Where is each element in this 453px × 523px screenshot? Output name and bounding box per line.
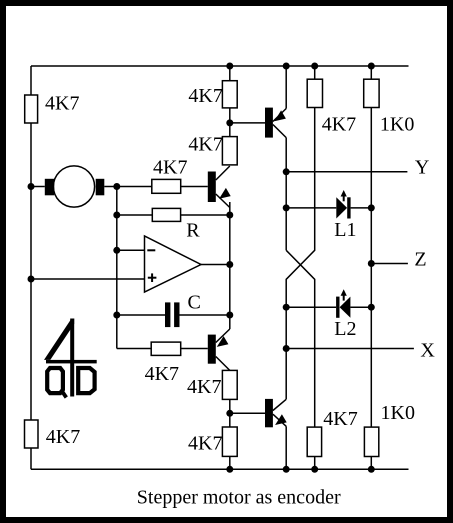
- junction dots centre bus: [226, 119, 233, 126]
- wire centre bus bottom segment: [229, 456, 231, 469]
- junction dots left rail: [28, 183, 35, 190]
- wire middle-left bus (x=117): [116, 187, 118, 349]
- wire Q4 base: [230, 412, 265, 414]
- logo 4QD: [44, 319, 97, 398]
- transistor Q4 (bottom): [265, 399, 287, 469]
- resistor 4K7 horizontal (Q3 base): [145, 342, 181, 385]
- junction dots bottom rail: [226, 466, 233, 473]
- svg-text:4K7: 4K7: [46, 426, 80, 448]
- wire Q1 base: [230, 122, 265, 124]
- resistor 4K7 centre stack 4: [188, 427, 237, 456]
- resistor 4K7 bottom-right: [307, 408, 358, 457]
- svg-text:L1: L1: [334, 219, 356, 241]
- transistor Q3 (middle lower): [208, 329, 230, 370]
- transistor Q1 (PNP top): [265, 66, 286, 138]
- svg-text:1K0: 1K0: [381, 402, 415, 424]
- resistor R feedback horizontal: [117, 208, 230, 241]
- resistor 1K0 top-right: [364, 79, 415, 135]
- resistor 4K7 bottom-left: [25, 420, 81, 448]
- wire output X: [286, 340, 435, 362]
- wire op-amp inverting input: [117, 249, 145, 251]
- wire op-amp output: [201, 264, 230, 266]
- wire centre bus top segment: [229, 66, 231, 81]
- svg-text:4K7: 4K7: [187, 376, 221, 398]
- wire left rail middle segment: [30, 123, 32, 420]
- junction dots top rail: [226, 63, 233, 70]
- wire 371 column middle: [370, 108, 372, 428]
- resistor 4K7 centre stack 2: [188, 134, 237, 165]
- wire centre bus middle segment: [229, 202, 231, 329]
- wire 371 column top: [370, 66, 372, 79]
- wire op-amp non-inverting input: [31, 278, 145, 280]
- svg-text:Stepper motor as encoder: Stepper motor as encoder: [137, 487, 341, 509]
- wire bottom rail: [31, 468, 409, 470]
- wire 315 column top: [314, 66, 316, 79]
- LED L2: [286, 289, 371, 340]
- svg-text:4K7: 4K7: [323, 408, 357, 430]
- wire left rail upper segment: [30, 66, 32, 95]
- junction dots middle-left bus: [113, 183, 120, 190]
- svg-text:X: X: [420, 340, 435, 362]
- svg-text:4K7: 4K7: [188, 134, 222, 156]
- wire crossover left-to-right: [286, 250, 315, 427]
- svg-text:Y: Y: [415, 156, 429, 178]
- svg-text:L2: L2: [334, 318, 356, 340]
- svg-text:4K7: 4K7: [145, 363, 179, 385]
- resistor 4K7 horizontal (Q2 base): [152, 157, 188, 194]
- svg-text:4K7: 4K7: [188, 433, 222, 455]
- svg-text:4K7: 4K7: [188, 85, 222, 107]
- wire output Y: [286, 156, 429, 178]
- svg-text:1K0: 1K0: [380, 114, 414, 136]
- LED L1: [286, 190, 371, 241]
- wire 371 column bottom: [370, 457, 372, 470]
- resistor 4K7 top-left: [25, 93, 80, 124]
- junction dots right column: [368, 204, 375, 211]
- wire left rail lower segment: [30, 448, 32, 469]
- svg-text:Z: Z: [414, 248, 426, 270]
- wire Q3 base resistor to Q3: [181, 348, 208, 350]
- capacitor C: [117, 292, 230, 328]
- svg-text:4K7: 4K7: [45, 93, 79, 115]
- wire motor to base resistor: [117, 186, 152, 188]
- wire top supply rail: [31, 65, 409, 67]
- motor M (stepper motor): [31, 166, 117, 207]
- wire crossover right-to-left: [286, 108, 315, 400]
- svg-text:4K7: 4K7: [153, 157, 187, 179]
- wire base resistor to Q2: [181, 186, 208, 188]
- wire centre bus lower segment: [229, 399, 231, 427]
- resistor 4K7 centre stack 3: [187, 370, 237, 399]
- resistor 1K0 bottom-right: [364, 402, 415, 457]
- svg-text:C: C: [188, 292, 201, 314]
- svg-text:R: R: [186, 220, 200, 242]
- junction dots Q1 collector column: [283, 168, 290, 175]
- wire Q1 collector column: [285, 138, 287, 251]
- wire lower-left bus to Q3 base resistor: [117, 348, 151, 350]
- wire between stacked resistors: [229, 108, 231, 137]
- resistor 4K7 top-right: [307, 79, 356, 135]
- transistor Q2 (middle upper): [208, 166, 231, 208]
- wire 315 column bottom: [314, 457, 316, 470]
- wire output Z: [371, 248, 426, 270]
- resistor 4K7 centre stack 1: [188, 81, 237, 108]
- svg-text:4K7: 4K7: [322, 114, 356, 136]
- op-amp U1: [145, 236, 202, 292]
